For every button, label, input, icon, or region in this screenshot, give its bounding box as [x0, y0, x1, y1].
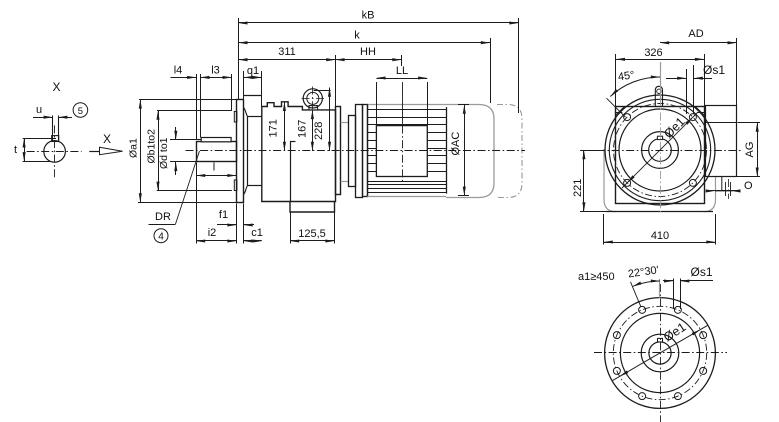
svg-text:Øb1to2: Øb1to2 — [146, 129, 158, 164]
svg-text:a1≥450: a1≥450 — [578, 271, 615, 283]
svg-text:AG: AG — [744, 142, 756, 158]
svg-text:45°: 45° — [617, 69, 635, 83]
svg-text:LL: LL — [396, 65, 408, 77]
svg-text:228: 228 — [313, 122, 325, 140]
svg-text:i2: i2 — [208, 227, 217, 239]
svg-text:Øs1: Øs1 — [703, 63, 725, 77]
svg-text:X: X — [53, 80, 61, 94]
svg-text:O: O — [744, 180, 753, 192]
svg-text:l4: l4 — [174, 65, 183, 77]
svg-text:171: 171 — [268, 119, 280, 137]
svg-text:311: 311 — [278, 46, 296, 58]
svg-text:k: k — [354, 30, 360, 42]
svg-text:326: 326 — [644, 47, 662, 59]
svg-text:410: 410 — [651, 230, 669, 242]
svg-text:t: t — [14, 144, 17, 156]
svg-text:Øs1: Øs1 — [691, 265, 713, 279]
svg-text:167: 167 — [297, 120, 309, 138]
svg-text:5: 5 — [78, 106, 83, 117]
svg-text:u: u — [36, 104, 42, 116]
svg-text:q1: q1 — [247, 65, 259, 77]
svg-text:221: 221 — [572, 179, 584, 197]
svg-text:X: X — [103, 132, 111, 146]
svg-text:AD: AD — [688, 28, 703, 40]
svg-text:4: 4 — [158, 232, 164, 243]
svg-text:l3: l3 — [211, 65, 220, 77]
svg-text:c1: c1 — [251, 227, 263, 239]
svg-text:DR: DR — [155, 211, 171, 223]
svg-text:HH: HH — [360, 46, 376, 58]
svg-text:Øa1: Øa1 — [128, 138, 140, 158]
svg-text:125,5: 125,5 — [298, 228, 326, 240]
svg-text:kB: kB — [362, 10, 375, 22]
svg-text:ØAC: ØAC — [450, 132, 462, 156]
svg-text:Ød to1: Ød to1 — [158, 137, 170, 169]
svg-text:l: l — [213, 162, 215, 174]
svg-text:f1: f1 — [219, 209, 228, 221]
